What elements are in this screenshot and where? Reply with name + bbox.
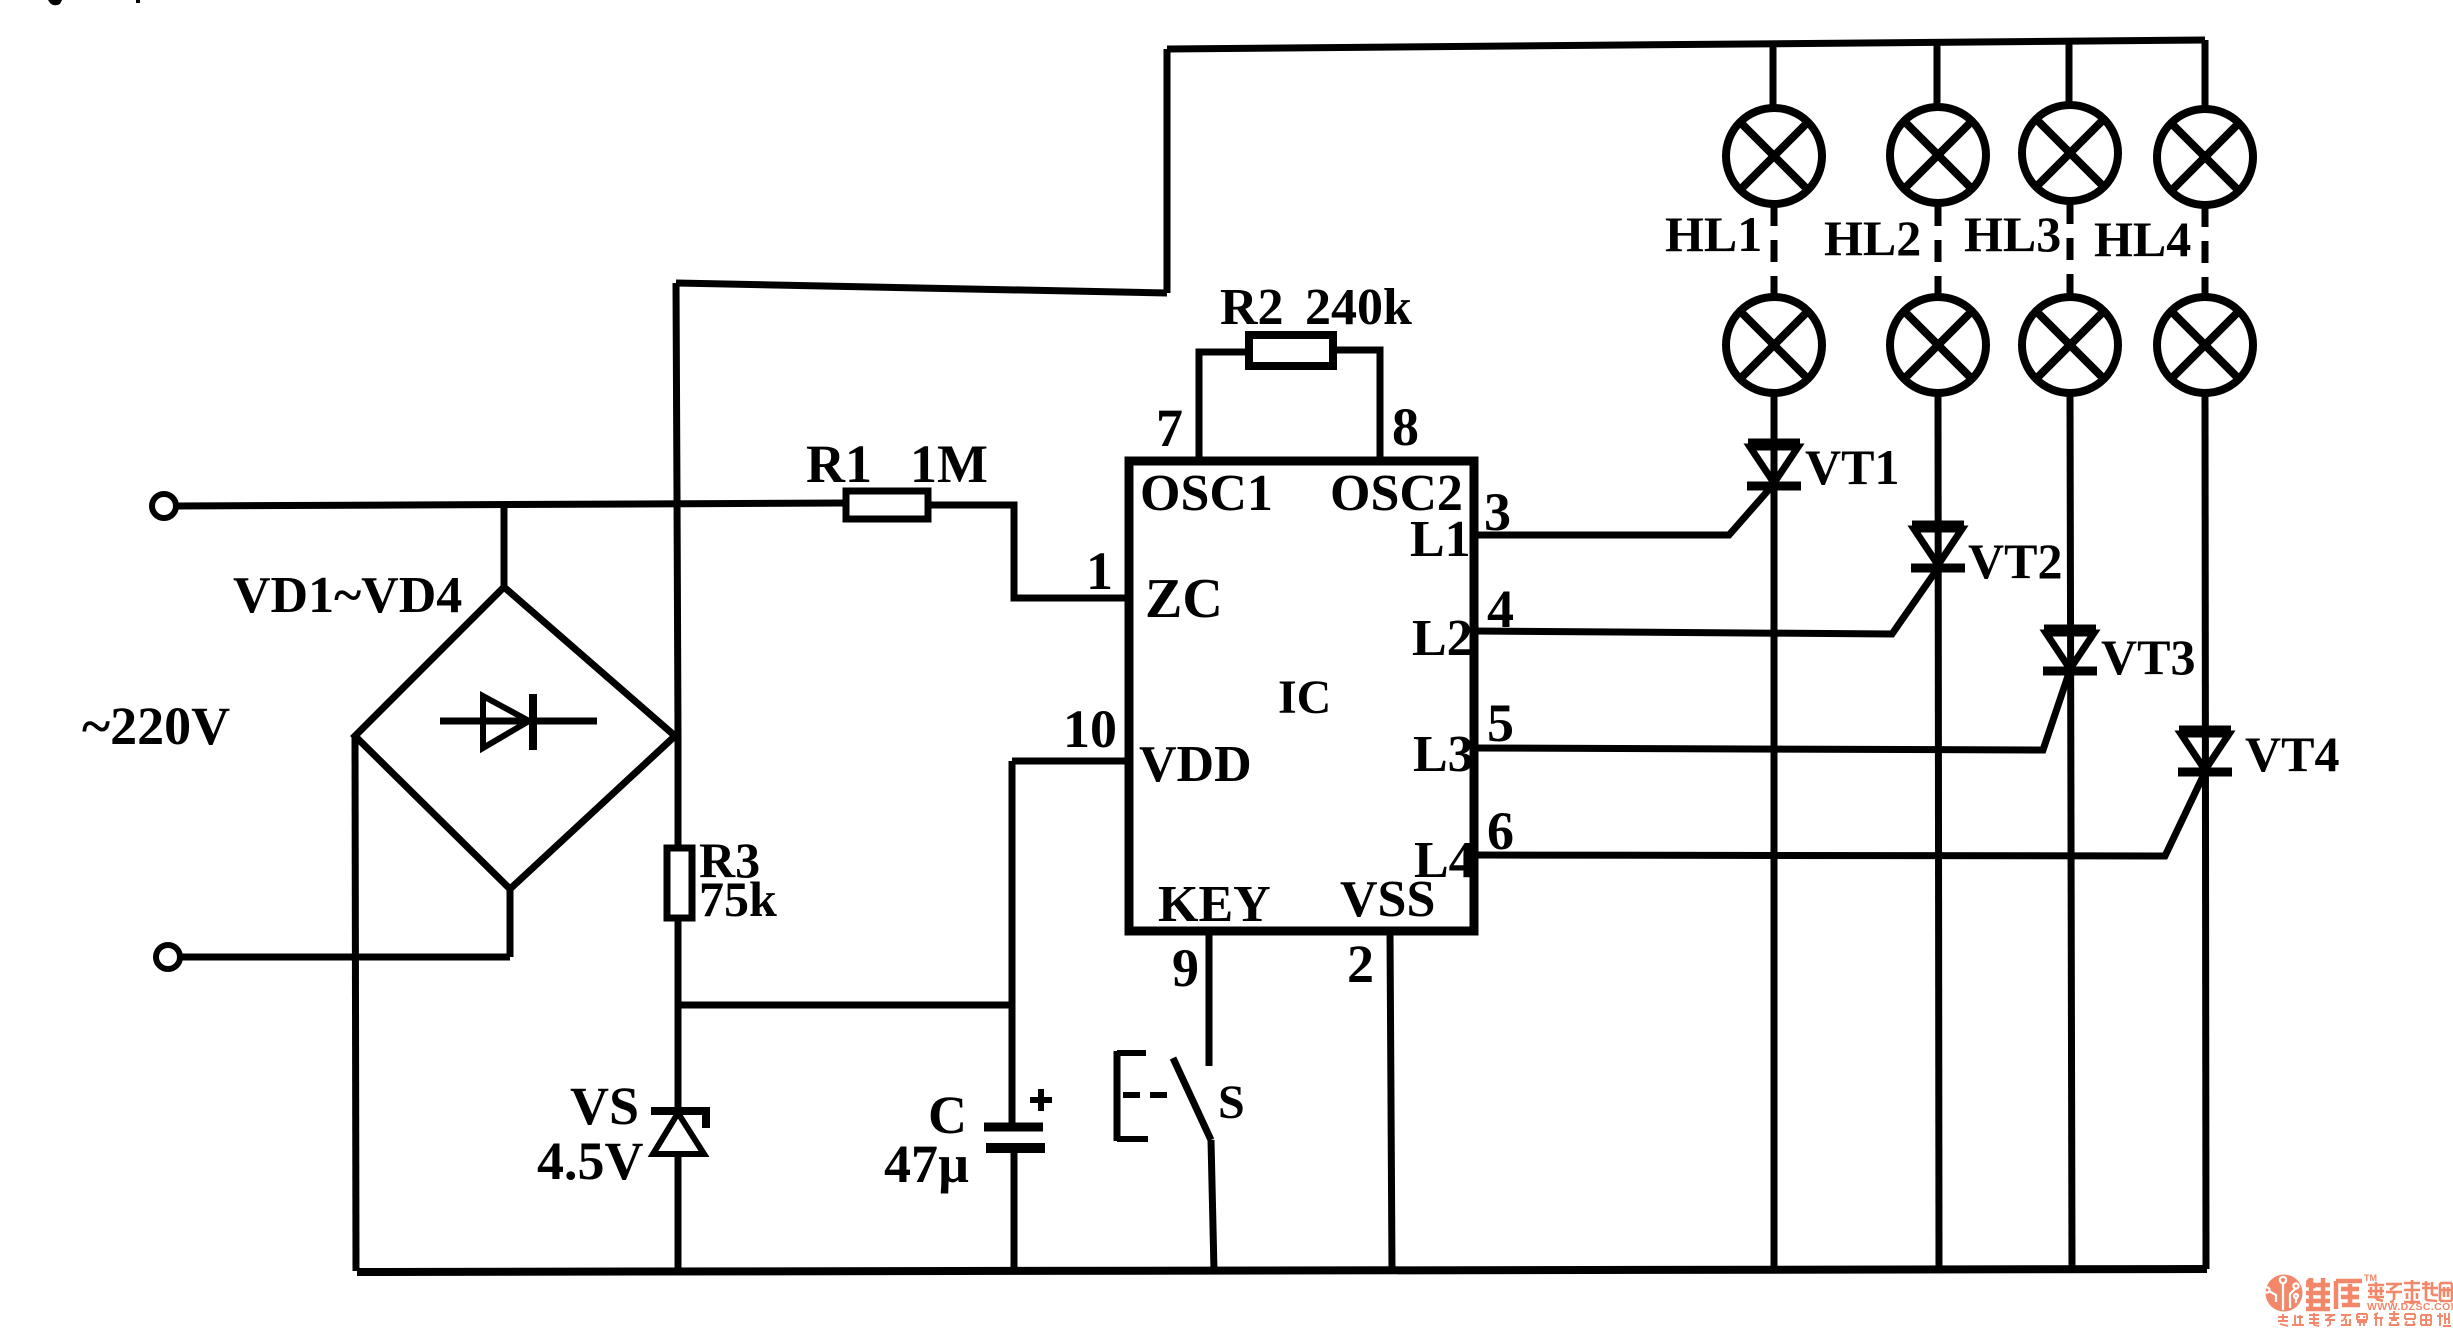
wire VDD branch horizontal xyxy=(678,1002,1012,1009)
svg-text:VT2: VT2 xyxy=(1968,533,2062,589)
svg-text:S: S xyxy=(1218,1076,1245,1129)
IC pin labels xyxy=(1139,465,1475,933)
svg-text:8: 8 xyxy=(1392,397,1419,457)
svg-text:R2: R2 xyxy=(1220,279,1284,336)
svg-text:VDD: VDD xyxy=(1139,736,1252,793)
lamp column 2 wires xyxy=(1937,41,1939,1270)
svg-text:HL1: HL1 xyxy=(1665,206,1762,262)
wire L2 (pin 4) xyxy=(1474,568,1938,634)
stray ink mark xyxy=(48,0,140,5)
svg-text:7: 7 xyxy=(1156,398,1183,458)
switch S xyxy=(1117,1051,1214,1271)
svg-text:75k: 75k xyxy=(699,871,777,927)
label VS 4.5V xyxy=(537,1076,644,1191)
svg-text:VT1: VT1 xyxy=(1805,439,1899,495)
svg-text:L1: L1 xyxy=(1410,511,1471,568)
svg-text:OSC1: OSC1 xyxy=(1140,465,1273,522)
svg-text:ZC: ZC xyxy=(1145,568,1223,630)
bridge rectifier VD1~VD4 xyxy=(355,503,675,957)
wire node A vertical (bridge + output to R3, VS) xyxy=(676,283,678,848)
wire VDD pin 10 xyxy=(1012,758,1129,765)
resistor R2 xyxy=(1249,335,1333,366)
lamp HL2 lower xyxy=(1890,297,1986,393)
thyristor VT3 xyxy=(2043,629,2097,671)
wire pin 9 stub xyxy=(1206,931,1213,1066)
svg-text:HL3: HL3 xyxy=(1964,206,2061,262)
watermark logo xyxy=(2264,1273,2453,1326)
svg-text:R1: R1 xyxy=(806,434,872,494)
svg-text:IC: IC xyxy=(1278,671,1331,724)
lamp HL3 upper xyxy=(2022,105,2118,201)
wire R2 to pin 8 xyxy=(1333,350,1380,463)
svg-text:9: 9 xyxy=(1172,938,1199,998)
svg-text:1M: 1M xyxy=(910,434,988,494)
top rail wire xyxy=(1167,40,2205,49)
svg-text:VT4: VT4 xyxy=(2245,726,2339,782)
bottom rail wire xyxy=(357,1269,2207,1272)
label R1 1M xyxy=(806,434,988,494)
watermark CJK brand glyph blocks xyxy=(2278,1273,2453,1326)
zener diode VS 4.5V xyxy=(651,1111,706,1271)
capacitor C 47u xyxy=(984,1089,1052,1271)
thyristor VT4 xyxy=(2178,730,2232,772)
svg-text:VS: VS xyxy=(570,1076,639,1136)
label R2 240k xyxy=(1220,279,1412,336)
lamp labels xyxy=(1665,206,2191,267)
wire R3 to VDD node xyxy=(675,918,682,1107)
wire T2 to bridge bottom xyxy=(181,954,510,961)
label C 47u xyxy=(884,1085,969,1194)
terminal T2 (AC input bottom) xyxy=(156,945,180,969)
thyristor VT2 xyxy=(1911,525,1965,568)
svg-text:WWW.DZSC.COM: WWW.DZSC.COM xyxy=(2367,1301,2453,1313)
svg-text:~220V: ~220V xyxy=(82,696,230,756)
svg-text:1: 1 xyxy=(1086,541,1113,601)
lamp column 1 wires xyxy=(1773,41,1774,1271)
wire top-left loop vertical to top rail xyxy=(1164,49,1171,293)
IC U1 box xyxy=(1129,461,1474,931)
lamp HL3 lower xyxy=(2022,297,2118,393)
svg-text:TM: TM xyxy=(2364,1273,2377,1283)
lamp column 3 wires xyxy=(2069,41,2072,1270)
lamp HL4 upper xyxy=(2157,109,2253,205)
wire pin 7 to R2 xyxy=(1199,352,1249,463)
svg-text:2: 2 xyxy=(1347,934,1374,994)
wire L3 (pin 5) xyxy=(1474,667,2071,750)
watermark slogan glyph blocks xyxy=(2278,1311,2451,1326)
svg-text:VD1~VD4: VD1~VD4 xyxy=(233,567,462,624)
svg-text:4.5V: 4.5V xyxy=(537,1131,644,1191)
wire R1 to ZC pin 1 xyxy=(928,505,1129,598)
wire L1 (pin 3) xyxy=(1474,486,1772,535)
wire top-left loop horizontal xyxy=(676,283,1167,293)
wire bridge left arm down to bottom rail xyxy=(355,736,356,1271)
thyristor VT1 xyxy=(1747,443,1801,486)
svg-text:L2: L2 xyxy=(1412,610,1473,667)
pin numbers xyxy=(1063,397,1514,998)
wire T1 to R1 node xyxy=(177,503,846,506)
wire pin 2 VSS to bottom rail xyxy=(1390,931,1392,1271)
svg-text:KEY: KEY xyxy=(1158,876,1271,933)
svg-text:HL4: HL4 xyxy=(2094,211,2191,267)
svg-text:10: 10 xyxy=(1063,699,1117,759)
svg-text:L3: L3 xyxy=(1413,726,1474,783)
lamp column 4 wires xyxy=(2205,40,2206,1269)
svg-text:5: 5 xyxy=(1487,693,1514,753)
wire L4 (pin 6) xyxy=(1474,770,2206,856)
terminal T1 (AC input top) xyxy=(152,494,176,518)
lamp HL1 upper xyxy=(1726,108,1822,204)
svg-text:240k: 240k xyxy=(1305,279,1412,336)
svg-text:VT3: VT3 xyxy=(2101,629,2195,685)
resistor R3 xyxy=(667,848,692,918)
lamp HL4 lower xyxy=(2157,297,2253,393)
svg-text:L4: L4 xyxy=(1414,832,1475,889)
wire VDD vertical xyxy=(1009,761,1016,1123)
lamp HL2 upper xyxy=(1890,107,1986,203)
lamp HL1 lower xyxy=(1726,297,1822,393)
resistor R1 xyxy=(846,491,928,519)
label R3 75k xyxy=(699,832,777,927)
svg-text:HL2: HL2 xyxy=(1824,210,1921,266)
svg-text:47µ: 47µ xyxy=(884,1134,969,1194)
